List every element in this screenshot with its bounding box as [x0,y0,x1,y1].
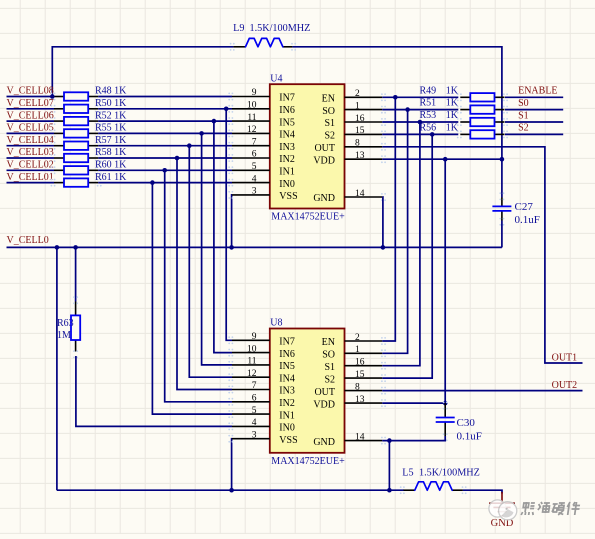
wire V_CELL07 down to U8 [226,109,232,340]
svg-text:IN2: IN2 [279,154,295,165]
wire [505,109,563,111]
pin 15 S2 [345,377,383,379]
junction [443,401,448,406]
pin 16 S1 [345,121,383,123]
junction S2 branch [430,132,435,137]
wire [7,169,55,171]
pin 2 EN [345,96,383,98]
svg-text:OUT2: OUT2 [552,380,578,391]
svg-text:12: 12 [247,125,257,135]
svg-text:R63: R63 [57,318,74,329]
wire C30 bottom to U8 GND row [382,436,445,441]
svg-text:SO: SO [322,106,335,117]
wire [98,145,232,147]
wire V_CELL01 down to U8 [152,183,232,415]
svg-text:14: 14 [355,189,365,199]
pin 10 IN6 [232,108,270,110]
junction [443,157,448,162]
svg-text:6: 6 [252,394,257,404]
wire U4 VDD row [382,158,502,160]
svg-text:V_CELL06: V_CELL06 [7,110,54,121]
wire from L9 to VDD vertical [292,47,502,160]
svg-text:16: 16 [355,114,365,124]
svg-text:0.1uF: 0.1uF [457,431,482,443]
svg-text:R51: R51 [420,98,437,109]
wire ENABLE down to U8 [382,97,395,341]
resistor R56 1K [420,123,509,139]
svg-text:IN2: IN2 [279,398,295,409]
svg-text:R57 1K: R57 1K [95,135,127,146]
wire VDD link down to U8 VDD [444,159,446,403]
wire [7,157,55,159]
svg-text:11: 11 [247,357,256,367]
svg-text:R61 1K: R61 1K [95,172,127,183]
svg-text:OUT1: OUT1 [552,352,578,363]
wire U4 GND pin14 to V_CELL0 rail [381,197,384,247]
svg-text:14: 14 [355,432,365,442]
pin 4 IN0 [232,182,270,184]
svg-text:V_CELL08: V_CELL08 [7,86,54,97]
svg-text:C27: C27 [515,201,534,213]
svg-text:3: 3 [252,187,257,197]
svg-text:S1: S1 [324,362,335,373]
wire [7,108,55,110]
svg-text:R53: R53 [420,110,437,121]
inductor L9 [230,23,311,51]
wire [98,108,232,110]
svg-text:IN4: IN4 [279,373,295,384]
wire V_CELL05 down to U8 [202,133,232,365]
svg-text:IN1: IN1 [279,410,295,421]
svg-text:2: 2 [355,89,360,99]
wire [382,133,458,135]
svg-text:R49: R49 [420,85,437,96]
wire S2 down to U8 [382,134,432,378]
resistor R60 1K [51,160,128,175]
svg-text:R50 1K: R50 1K [95,98,127,109]
svg-text:IN3: IN3 [279,386,295,397]
svg-text:7: 7 [252,381,257,391]
svg-text:S0: S0 [518,98,529,109]
junction V_CELL07 branch [224,107,229,112]
svg-text:EN: EN [322,94,335,105]
svg-text:3: 3 [252,430,257,440]
pin 8 OUT [345,390,383,392]
junction [387,438,392,443]
resistor R55 1K [51,123,128,138]
svg-text:1.5K/100MHZ: 1.5K/100MHZ [419,467,480,478]
svg-text:IN0: IN0 [279,423,295,434]
svg-text:5: 5 [252,162,257,172]
svg-text:7: 7 [252,137,257,147]
svg-text:VDD: VDD [313,399,335,410]
junction [387,488,392,493]
wire V_CELL0 down-left to bottom rail [56,247,58,490]
wire U4 VSS to V_CELL0 rail [231,195,233,248]
wire [382,109,458,111]
svg-text:15: 15 [355,370,365,380]
resistor R58 1K [51,147,128,162]
svg-text:VSS: VSS [279,435,297,446]
wire [382,96,458,98]
svg-text:IN5: IN5 [279,117,295,128]
svg-text:MAX14752EUE+: MAX14752EUE+ [271,212,345,223]
svg-text:MAX14752EUE+: MAX14752EUE+ [271,456,345,467]
pin 11 IN5 [232,364,270,366]
pin 5 IN1 [232,169,270,171]
svg-text:VDD: VDD [313,155,335,166]
svg-text:IN6: IN6 [279,349,295,360]
wire U8 VDD row [382,402,445,404]
svg-text:S2: S2 [324,374,335,385]
wire down to bottom rail [388,441,390,491]
svg-text:OUT: OUT [314,387,335,398]
junction [500,157,505,162]
wire S0 down to U8 [382,110,407,354]
svg-text:13: 13 [355,151,365,161]
wire V_CELL03 down to U8 [177,158,232,390]
pin 5 IN1 [232,413,270,415]
junction S0 branch [405,107,410,112]
resistor R52 1K [51,110,128,125]
svg-text:1: 1 [355,345,360,355]
pin 1 SO [345,109,383,111]
svg-text:1M: 1M [57,330,71,341]
pin 3 VSS [232,438,270,440]
wire V_CELL06 down to U8 [214,121,232,353]
svg-text:9: 9 [252,332,257,342]
svg-text:1K: 1K [446,98,459,109]
svg-text:S2: S2 [518,123,529,134]
resistor R49 1K [420,85,509,101]
junction [229,245,234,250]
wire [7,120,55,122]
svg-text:2: 2 [355,333,360,343]
svg-text:ENABLE: ENABLE [518,86,557,97]
wire [7,145,55,147]
pin 13 VDD [345,402,383,404]
svg-text:IN5: IN5 [279,361,295,372]
wire [98,96,232,98]
svg-text:1K: 1K [446,110,459,121]
pin 15 S2 [345,133,383,135]
svg-text:1K: 1K [446,123,459,134]
junction S1 branch [418,120,423,125]
svg-text:S1: S1 [324,118,335,129]
svg-text:V_CELL01: V_CELL01 [7,172,54,183]
svg-text:R60 1K: R60 1K [95,160,127,171]
capacitor C30 0.1uF [436,402,482,443]
svg-text:SO: SO [322,350,335,361]
svg-text:8: 8 [355,382,360,392]
svg-text:1: 1 [355,101,360,111]
wire U4 OUT to OUT1 [382,147,582,363]
svg-text:V_CELL0: V_CELL0 [7,235,49,246]
pin 7 IN3 [232,389,270,391]
svg-text:10: 10 [247,344,257,354]
svg-text:L5: L5 [402,467,413,478]
pin 4 IN0 [232,425,270,427]
resistor R48 1K [51,86,128,101]
svg-text:IN3: IN3 [279,142,295,153]
pin 14 GND [345,440,383,442]
wire [98,120,232,122]
inductor L5 [400,467,480,494]
svg-text:V_CELL07: V_CELL07 [7,98,54,109]
wire U8 VSS to bottom rail [231,439,233,491]
IC U4 MAX14752EUE+ [228,73,386,222]
pin 12 IN4 [232,376,270,378]
wire [7,96,55,98]
svg-text:1.5K/100MHZ: 1.5K/100MHZ [250,23,311,34]
svg-text:L9: L9 [233,23,244,34]
svg-text:8: 8 [355,139,360,149]
wire V_CELL02 down to U8 [165,170,232,401]
wire [505,121,563,123]
svg-text:IN4: IN4 [279,130,295,141]
junction [55,245,60,250]
svg-text:IN7: IN7 [279,93,295,104]
wire V_CELL04 down to U8 [189,146,232,378]
svg-text:10: 10 [247,101,257,111]
junction V_CELL01 branch [150,180,155,185]
svg-text:IN6: IN6 [279,105,295,116]
capacitor C27 0.1uF [492,192,539,226]
wire C27 bottom to V_CELL0 rail [501,221,503,248]
wire [382,121,458,123]
svg-text:1K: 1K [446,85,459,96]
wire V_CELL0 rail [7,246,502,248]
svg-text:C30: C30 [457,417,476,429]
wire R63 to U8 IN0 [76,356,232,426]
svg-text:GND: GND [313,437,335,448]
pin 9 IN7 [232,96,270,98]
junction [73,245,78,250]
wire [505,133,563,135]
svg-text:R48 1K: R48 1K [95,86,127,97]
svg-text:R55 1K: R55 1K [95,123,127,134]
svg-text:R58 1K: R58 1K [95,147,127,158]
svg-text:V_CELL03: V_CELL03 [7,147,54,158]
junction V_CELL02 branch [162,168,167,173]
wire top-left vertical from V_CELL08 row up to top rail [52,47,233,97]
svg-text:IN7: IN7 [279,337,295,348]
svg-text:4: 4 [252,174,257,184]
pin 6 IN2 [232,157,270,159]
wire [98,182,232,184]
svg-text:S2: S2 [324,131,335,142]
pin 3 VSS [232,194,270,196]
wire VDD vertical to C27 [501,159,503,197]
svg-text:IN1: IN1 [279,167,295,178]
resistor R57 1K [51,135,128,150]
svg-text:13: 13 [355,395,365,405]
pin 16 S1 [345,365,383,367]
junction V_CELL05 branch [199,131,204,136]
svg-text:S1: S1 [518,110,529,121]
wire U8 OUT to OUT2 [382,390,582,392]
svg-text:VSS: VSS [279,191,297,202]
wire [7,182,55,184]
svg-text:EN: EN [322,337,335,348]
pin 12 IN4 [232,132,270,134]
pin 14 GND [345,196,383,198]
svg-text:12: 12 [247,369,257,379]
wire [98,157,232,159]
svg-text:5: 5 [252,406,257,416]
pin 2 EN [345,340,383,342]
svg-text:OUT: OUT [314,143,335,154]
wire [98,169,232,171]
wire L5 to GND [463,490,502,493]
IC U8 MAX14752EUE+ [228,318,386,467]
pin 9 IN7 [232,339,270,341]
svg-text:V_CELL02: V_CELL02 [7,160,54,171]
pin 13 VDD [345,158,383,160]
pin 6 IN2 [232,401,270,403]
svg-text:15: 15 [355,126,365,136]
junction ENABLE branch [393,95,398,100]
svg-text:16: 16 [355,358,365,368]
wire [98,132,232,134]
resistor R63 1M [57,296,80,358]
svg-text:4: 4 [252,418,257,428]
pin 10 IN6 [232,352,270,354]
resistor R61 1K [51,172,128,187]
svg-text:11: 11 [247,113,256,123]
junction V_CELL03 branch [175,156,180,161]
resistor R50 1K [51,98,128,113]
svg-text:6: 6 [252,150,257,160]
ground GND power port [489,492,515,529]
wire S1 down to U8 [382,122,420,366]
pin 8 OUT [345,146,383,148]
svg-text:R52 1K: R52 1K [95,110,127,121]
junction V_CELL04 branch [187,143,192,148]
pin 1 SO [345,352,383,354]
svg-text:R56: R56 [420,123,437,134]
svg-text:IN0: IN0 [279,179,295,190]
junction [381,245,386,250]
wire rail to R63 [75,247,77,301]
pin 7 IN3 [232,145,270,147]
resistor R51 1K [420,98,509,114]
junction V_CELL06 branch [212,119,217,124]
svg-text:V_CELL05: V_CELL05 [7,123,54,134]
svg-text:9: 9 [252,88,257,98]
resistor R53 1K [420,110,509,126]
pin 11 IN5 [232,120,270,122]
svg-text:U4: U4 [270,73,282,84]
wire [505,96,563,98]
svg-text:GND: GND [313,193,335,204]
svg-text:0.1uF: 0.1uF [515,214,540,226]
wire [7,132,55,134]
junction [50,94,55,99]
junction [229,488,234,493]
svg-text:U8: U8 [270,318,282,329]
svg-text:V_CELL04: V_CELL04 [7,135,54,146]
wire bottom rail [57,489,404,491]
